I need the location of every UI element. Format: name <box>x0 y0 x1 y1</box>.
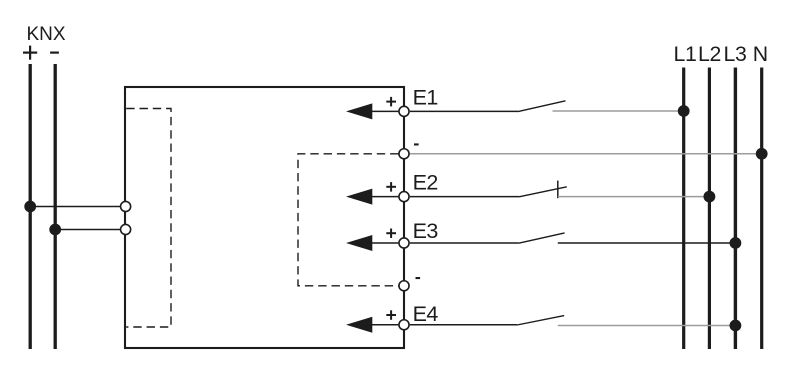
svg-text:KNX: KNX <box>27 24 66 45</box>
svg-text:L3: L3 <box>724 42 747 66</box>
svg-text:E1: E1 <box>413 86 438 110</box>
svg-text:E2: E2 <box>413 170 438 194</box>
svg-text:E4: E4 <box>413 302 439 326</box>
svg-text:N: N <box>753 42 768 66</box>
svg-text:L1: L1 <box>674 42 697 66</box>
svg-text:E3: E3 <box>413 219 439 243</box>
svg-text:L2: L2 <box>698 42 721 66</box>
